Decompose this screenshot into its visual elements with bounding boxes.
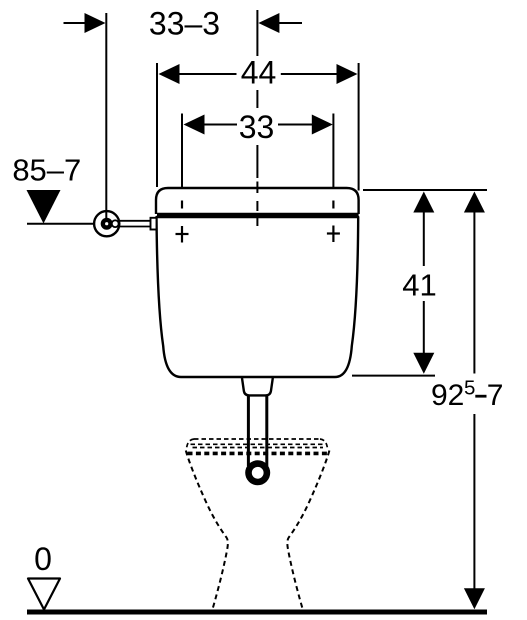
supply valve inner screw: [101, 218, 113, 230]
rim end curl left: [187, 439, 195, 449]
dimension 92(5)-7: [464, 192, 485, 610]
dimension 33-3 right arrow: [258, 13, 302, 33]
dimension 44 line with arrows: [159, 64, 358, 84]
water supply level line: [27, 223, 96, 225]
floor line: [27, 610, 487, 615]
svg-text:7: 7: [487, 379, 504, 412]
right top extension line: [363, 189, 487, 191]
toilet bowl rim dashed line 3: [193, 447, 324, 449]
cistern lid: [156, 188, 359, 214]
dimension 33 left extension line upper part: [181, 114, 183, 195]
screw hole cross right (hidden line + cross): [327, 201, 340, 243]
dimension 33-3 left extension / valve axis line: [105, 13, 107, 224]
toilet bowl rim dashed line 1: [194, 438, 320, 440]
svg-text:33–3: 33–3: [149, 6, 220, 42]
svg-text:41: 41: [402, 268, 436, 303]
svg-text:44: 44: [241, 55, 277, 91]
water level filled triangle: [27, 190, 61, 224]
flush pipe connector ring: [249, 464, 267, 482]
dimension 33 line with arrows: [184, 115, 333, 135]
right bottom extension line (41): [352, 375, 435, 377]
supply valve side fitting: [112, 220, 119, 227]
flush bend stub below tank: [242, 378, 273, 395]
svg-text:92: 92: [431, 379, 464, 412]
supply flange at cistern: [151, 218, 157, 230]
dimension 41: [413, 192, 434, 374]
flush pipe walls: [248, 395, 266, 466]
dimension 33-3 left arrow: [64, 13, 106, 33]
supply valve outer circle: [94, 211, 119, 236]
lid seam thick line: [157, 213, 359, 218]
svg-text:0: 0: [34, 541, 52, 577]
toilet bowl right dashed outline: [287, 451, 329, 612]
ground zero open triangle: [28, 579, 60, 610]
toilet bowl seat thick dashed line: [188, 452, 331, 456]
supply pipe to cistern: [119, 221, 150, 227]
toilet bowl left dashed outline: [186, 451, 228, 612]
rim end curl right: [320, 439, 328, 449]
cistern tank body: [157, 217, 359, 377]
toilet bowl rim dashed line 2: [191, 443, 326, 445]
centre line (dash pattern) of cistern: [256, 10, 258, 226]
screw hole cross left (hidden line + cross): [176, 201, 189, 243]
svg-text:85–7: 85–7: [12, 153, 81, 188]
svg-text:33: 33: [239, 109, 275, 145]
valve axis line inside circle: [105, 211, 107, 219]
dimension 44 left extension line: [156, 63, 158, 187]
svg-text:5: 5: [464, 377, 475, 400]
dimension 33 right extension line upper part: [332, 114, 334, 195]
dimension 44 right extension line: [358, 63, 360, 191]
